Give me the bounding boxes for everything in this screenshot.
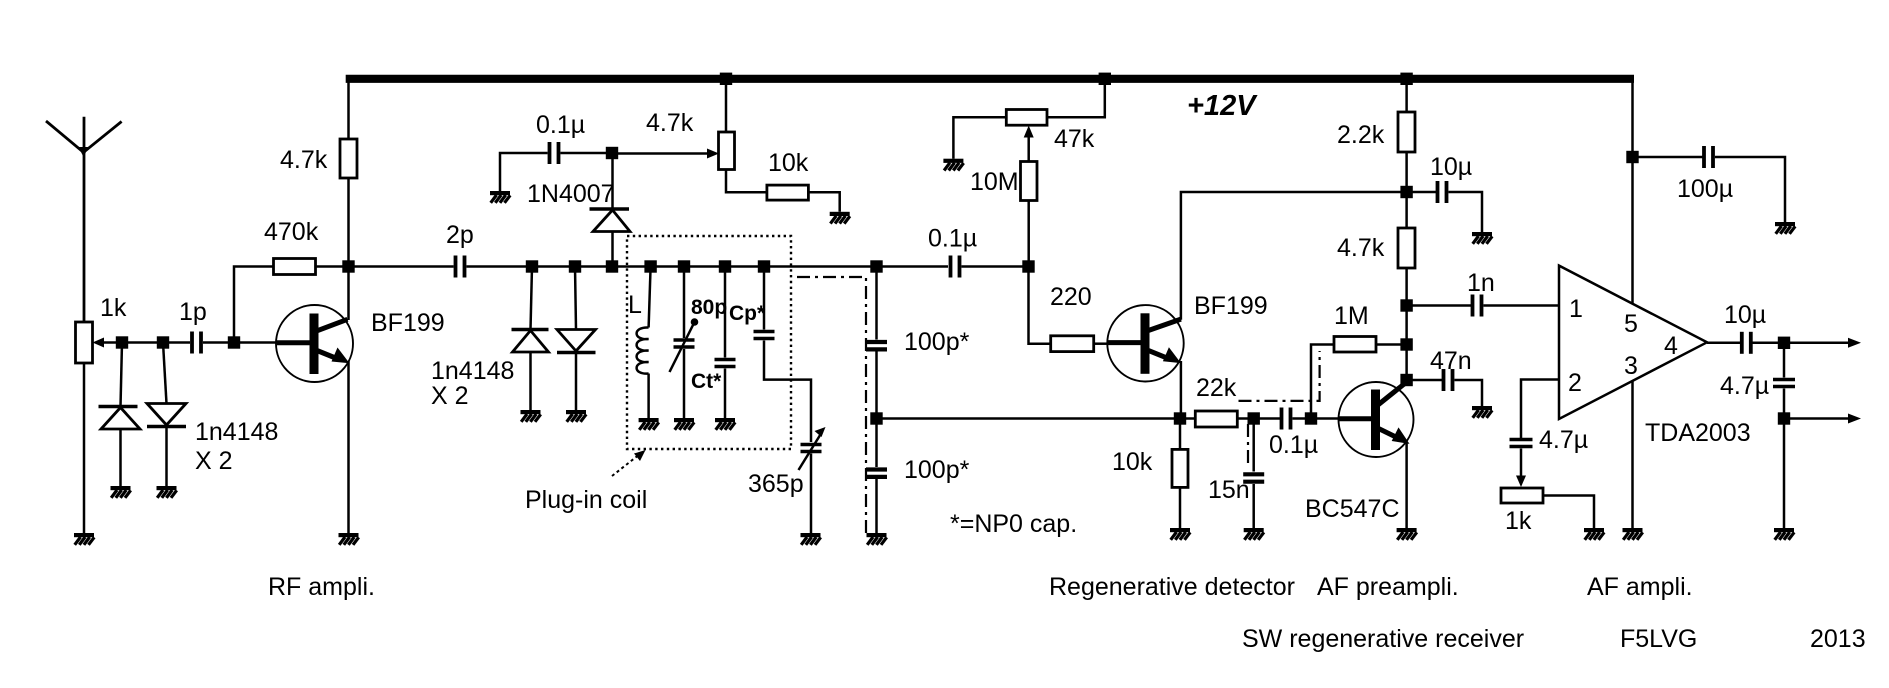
ground (D4) (566, 410, 586, 422)
wire: 10M to base node (1027, 201, 1030, 267)
node: Q2 emitter junction (1174, 412, 1186, 424)
ground (Q1 emitter) (339, 533, 359, 545)
wire: Q1 collector up to 4.7k (347, 178, 350, 320)
node: rail junction at 4.7k collector resistor (720, 73, 732, 85)
svg-text:SW regenerative receiver: SW regenerative receiver (1242, 625, 1524, 653)
wire: Q2 collector riser to AF column (1181, 192, 1407, 320)
svg-text:10µ: 10µ (1724, 301, 1766, 329)
ground (10u) (1472, 232, 1492, 244)
capacitor Ct* (715, 267, 736, 419)
transistor Q2 BF199 (regenerative detector) (1107, 305, 1183, 381)
svg-text:1n4148: 1n4148 (431, 357, 514, 385)
wire: 0.1u to 10M node (962, 265, 1029, 268)
ground (0.1u) (490, 191, 510, 203)
svg-text:4.7µ: 4.7µ (1539, 426, 1588, 454)
resistor 4.7k (Q3 collector) (1398, 228, 1415, 380)
svg-text:4.7k: 4.7k (280, 146, 328, 174)
svg-text:47k: 47k (1054, 125, 1095, 153)
ground (47n) (1472, 406, 1492, 418)
transistor Q3 BC547C (AF preampli) (1339, 382, 1414, 457)
svg-text:365p: 365p (748, 470, 804, 498)
svg-text:2p: 2p (446, 221, 474, 249)
svg-text:BF199: BF199 (371, 309, 445, 337)
svg-text:L: L (628, 291, 642, 319)
node: divider mid junction (870, 412, 882, 424)
svg-text:1M: 1M (1334, 302, 1369, 330)
svg-text:3: 3 (1624, 352, 1638, 380)
capacitor 4.7u (output filter) (1773, 343, 1795, 528)
diode 1N4007 (varactor, cathode up) (590, 153, 631, 267)
svg-text:4.7k: 4.7k (646, 109, 694, 137)
svg-text:0.1µ: 0.1µ (928, 225, 977, 253)
node: detector base bias junction (1022, 260, 1034, 272)
svg-text:0.1µ: 0.1µ (536, 111, 585, 139)
wire: 4.7k pot bottom to 10k (726, 170, 767, 193)
svg-text:TDA2003: TDA2003 (1645, 419, 1751, 447)
node (Cp* tap) (758, 260, 770, 272)
capacitor 47n (1407, 369, 1482, 406)
wire: output arrow (speaker) (1784, 338, 1861, 348)
ground (pin 3) (1623, 528, 1643, 540)
capacitor 100p* (lower divider) (866, 419, 887, 534)
svg-text:10k: 10k (1112, 448, 1153, 476)
wire: 470k to collector node (316, 265, 349, 268)
plug-in coil dotted box (627, 236, 791, 449)
op-amp U1 TDA2003 (1559, 266, 1707, 419)
wire: plug-in link dash-dot (797, 277, 866, 533)
resistor 22k (1180, 411, 1280, 427)
potentiometer 4.7k (tuning) (719, 79, 735, 170)
node (80p tap) (678, 260, 690, 272)
wire: pin 2 to 4.7u (1521, 380, 1559, 439)
svg-text:2: 2 (1568, 369, 1582, 397)
svg-text:1n4148: 1n4148 (195, 418, 278, 446)
ground (D1) (111, 486, 131, 498)
node: 2.2k/4.7k junction (1400, 186, 1412, 198)
svg-text:*=NP0 cap.: *=NP0 cap. (950, 510, 1077, 538)
node: 100u junction (1626, 151, 1638, 163)
ground (15n) (1244, 528, 1264, 540)
capacitor 15n (1243, 419, 1264, 529)
svg-text:2013: 2013 (1810, 625, 1866, 653)
wire: 47k wiper arrow to 10M (1027, 132, 1030, 162)
ground (1k pot) (1584, 528, 1604, 540)
svg-text:RF ampli.: RF ampli. (268, 573, 375, 601)
svg-text:100p*: 100p* (904, 328, 970, 356)
node: rail junction at 47k pot (1099, 73, 1111, 85)
capacitor 100p* (upper divider) (866, 267, 887, 419)
wire: pin 3 to ground (1631, 380, 1634, 528)
node: rail junction at 2.2k (1400, 73, 1412, 85)
Plug-in coil pointer arrow (612, 450, 646, 476)
node: Q3 collector / 47n junction (1400, 374, 1412, 386)
capacitor 0.1u (detector coupling) (951, 256, 960, 278)
wire: 1p to BF199 base (203, 341, 277, 344)
diode D3 1n4148 (cathode up) (512, 267, 549, 411)
wire: Q1 emitter to ground (347, 361, 350, 533)
node: 1N4007 anode feed (606, 147, 618, 159)
wire: 10u to output node (1753, 342, 1785, 345)
ground (D2) (157, 486, 177, 498)
svg-text:5: 5 (1624, 310, 1638, 338)
+12V supply rail (346, 75, 1634, 83)
node: low output junction (1778, 412, 1790, 424)
node: 1M junction (1400, 338, 1412, 350)
wire: 10k to ground (808, 192, 839, 212)
svg-text:4: 4 (1664, 332, 1678, 360)
svg-text:15n: 15n (1208, 476, 1250, 504)
resistor 1M (Q3 feedback) (1334, 337, 1407, 353)
wire: base node down to 220 (1029, 267, 1051, 344)
ground (L) (639, 418, 659, 430)
resistor 470k (274, 259, 316, 275)
svg-text:10µ: 10µ (1430, 153, 1472, 181)
svg-text:F5LVG: F5LVG (1620, 625, 1697, 653)
svg-text:BC547C: BC547C (1305, 495, 1400, 523)
wire: output pin 4 to 10u (1707, 342, 1740, 345)
svg-text:X 2: X 2 (431, 382, 469, 410)
ground (Ct*) (715, 418, 735, 430)
potentiometer 1k (gain) (1501, 488, 1594, 528)
wire: 1k wiper arrow (99, 341, 122, 344)
ground (D3) (521, 410, 541, 422)
ground (antenna pot) (74, 533, 94, 545)
svg-text:4.7µ: 4.7µ (1720, 372, 1769, 400)
svg-text:100µ: 100µ (1677, 175, 1733, 203)
wire: +12V rail down to pin 5 (1631, 75, 1634, 304)
capacitor 1p (192, 332, 201, 354)
svg-text:Ct*: Ct* (691, 370, 722, 393)
capacitor Cp* (754, 267, 812, 443)
diode D1 1n4148 (cathode up) (99, 343, 141, 487)
svg-text:AF preampli.: AF preampli. (1317, 573, 1459, 601)
resistor 10k (Q2 emitter) (1172, 419, 1188, 529)
wire: 0.1u to Q3 base (1293, 417, 1340, 420)
svg-text:AF ampli.: AF ampli. (1587, 573, 1693, 601)
svg-text:100p*: 100p* (904, 456, 970, 484)
svg-text:0.1µ: 0.1µ (1269, 431, 1318, 459)
ground (47k pot) (943, 159, 963, 171)
capacitor 0.1u (varactor supply filter) (550, 142, 559, 164)
svg-text:1p: 1p (179, 298, 207, 326)
svg-text:22k: 22k (1196, 374, 1237, 402)
diode D4 1n4148 (cathode down) (557, 267, 596, 411)
ground (10k) (830, 212, 850, 224)
ground (Q3 emitter) (1397, 528, 1417, 540)
node (1N4007 tap) (606, 260, 618, 272)
node B (diode D2 tap) (157, 336, 169, 348)
wire: 0.1u right to 1N4007 node (561, 152, 613, 155)
svg-text:X 2: X 2 (195, 447, 233, 475)
node: speaker output junction (1778, 337, 1790, 349)
svg-text:220: 220 (1050, 283, 1092, 311)
wire: riser to 470k (234, 267, 274, 343)
node: 1n junction (1400, 299, 1412, 311)
wire: main tank line (2p to 0.1u coupling) (467, 265, 949, 268)
wire: input line to 1p cap (122, 341, 190, 344)
node A (diode D1 tap) (116, 336, 128, 348)
capacitor 1n (1407, 295, 1559, 317)
svg-text:+12V: +12V (1187, 90, 1258, 122)
node: 15n junction (1248, 412, 1260, 424)
potentiometer 1k (antenna attenuator) (76, 322, 93, 363)
node (100p divider tap) (870, 260, 882, 272)
svg-text:2.2k: 2.2k (1337, 121, 1385, 149)
svg-text:80p: 80p (691, 296, 727, 319)
ground (80p) (674, 418, 694, 430)
svg-text:Plug-in coil: Plug-in coil (525, 486, 647, 514)
resistor 220 (1051, 336, 1094, 352)
capacitor 100u (supply bypass) (1633, 146, 1786, 222)
wire: Q2 emitter down to detector line (1180, 361, 1183, 419)
svg-text:1n: 1n (1467, 269, 1495, 297)
node: Q1 collector junction (342, 260, 354, 272)
ground (100p divider) (867, 533, 887, 545)
wire: 0.1u left to ground (500, 153, 548, 191)
node (Ct* tap) (719, 260, 731, 272)
svg-text:10M: 10M (970, 168, 1019, 196)
ground (output filter) (1774, 528, 1794, 540)
wire: main tank line (collector node to 2p) (349, 265, 454, 268)
diode D2 1n4148 (cathode down) (147, 343, 186, 487)
resistor 2.2k (Q3 load) (1398, 82, 1415, 228)
resistor 10k (tuning divider) (767, 185, 809, 200)
capacitor 4.7u (feedback) (1510, 440, 1533, 488)
svg-text:1k: 1k (100, 294, 127, 322)
wire: 1M feedback riser (1311, 345, 1334, 419)
node: Q3 base junction (1305, 412, 1317, 424)
svg-text:1N4007: 1N4007 (527, 180, 615, 208)
wire: Q3 emitter to ground (1405, 442, 1408, 528)
resistor 4.7k (Q1 collector) (340, 139, 357, 178)
wire: 220 to Q2 base (1094, 342, 1108, 345)
potentiometer 47k (regeneration) (953, 79, 1104, 159)
capacitor 10u (output) (1742, 332, 1751, 354)
ground (365p) (801, 533, 821, 545)
resistor 10M (1021, 162, 1038, 201)
antenna (46, 117, 122, 322)
ground (100u) (1775, 222, 1795, 234)
capacitor 10u (decoupling) (1407, 181, 1482, 232)
node (D4 tap) (569, 260, 581, 272)
svg-text:10k: 10k (768, 149, 809, 177)
trimmer capacitor 80p (670, 267, 699, 419)
wire: regen link dash-dot (1239, 351, 1320, 401)
wire: 15n shield dash-dot stub (1247, 424, 1249, 467)
svg-text:470k: 470k (264, 218, 319, 246)
transistor Q1 BF199 (RF ampli) (276, 305, 353, 382)
node (D3 tap) (526, 260, 538, 272)
capacitor 2p (456, 256, 465, 278)
capacitor 0.1u (AF coupling) (1282, 408, 1291, 430)
svg-text:1: 1 (1569, 295, 1583, 323)
svg-text:Regenerative detector: Regenerative detector (1049, 573, 1295, 601)
inductor L (637, 267, 651, 419)
svg-text:Cp*: Cp* (729, 302, 766, 325)
svg-text:4.7k: 4.7k (1337, 234, 1385, 262)
wire: tuning voltage to 4.7k pot wiper (arrow) (612, 152, 712, 155)
wire: 4.7k to +12V rail (347, 75, 350, 139)
svg-text:47n: 47n (1430, 347, 1472, 375)
wire: low output arrow (1784, 414, 1861, 424)
variable capacitor 365p (799, 427, 826, 533)
node (coil L tap) (644, 260, 656, 272)
wire: 1k pot bottom to ground (83, 363, 86, 533)
svg-text:1k: 1k (1505, 507, 1532, 535)
ground (10k emitter) (1170, 528, 1190, 540)
wire: detector output line (100p node to Q2 emitter) (877, 417, 1181, 420)
svg-text:BF199: BF199 (1194, 292, 1268, 320)
node: base/470k junction (228, 336, 240, 348)
